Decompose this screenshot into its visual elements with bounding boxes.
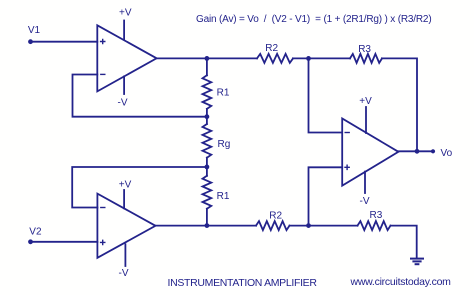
svg-text:-V: -V — [119, 268, 129, 279]
svg-text:+V: +V — [119, 7, 132, 18]
wire Rg leads — [206, 117, 208, 167]
power -V stub U2 — [124, 244, 126, 266]
resistor R1 upper — [203, 75, 212, 109]
node V1 terminal — [28, 39, 33, 44]
power +V stub U3 — [365, 107, 367, 133]
label www.circuitstoday.com — [350, 276, 452, 288]
node D junction bottom of R1 — [205, 223, 210, 228]
resistor Rg — [203, 124, 212, 158]
wire R1 upper leads — [206, 58, 208, 116]
svg-text:R3: R3 — [358, 44, 371, 55]
wire U2 output — [156, 225, 257, 227]
power -V stub U1 — [123, 76, 125, 94]
svg-text:R1: R1 — [217, 87, 230, 98]
wire R3 lower to ground — [391, 226, 417, 258]
label gain formula — [196, 14, 431, 25]
svg-text:Vo: Vo — [441, 148, 453, 159]
power -V stub U3 — [364, 172, 366, 193]
wire V1 to U1 + input — [31, 41, 98, 43]
label -V U1 — [118, 97, 128, 108]
label R1 upper — [217, 87, 230, 98]
wire R2 bottom to node G — [290, 225, 358, 227]
wire node G up to U3 non-inverting input — [309, 167, 343, 225]
ground — [411, 259, 423, 265]
svg-text:+V: +V — [119, 179, 132, 190]
svg-text:V2: V2 — [29, 226, 42, 237]
node G junction — [306, 223, 311, 228]
node V2 terminal — [28, 239, 33, 244]
label +V U2 — [119, 179, 132, 190]
label Vo — [441, 148, 453, 159]
resistor R3 lower — [358, 221, 391, 230]
svg-text:R2: R2 — [269, 211, 282, 222]
node A junction top of R1 — [205, 56, 210, 61]
label title INSTRUMENTATION AMPLIFIER — [168, 277, 318, 289]
label R1 lower — [217, 191, 230, 202]
wire R1 lower leads — [206, 167, 208, 226]
svg-text:V1: V1 — [28, 25, 41, 36]
label R2 upper — [265, 43, 278, 54]
node E junction — [306, 56, 311, 61]
label V1 — [28, 25, 41, 36]
label Rg — [218, 139, 231, 150]
label R2 lower — [269, 211, 282, 222]
svg-text:+V: +V — [359, 96, 372, 107]
label V2 — [29, 226, 42, 237]
svg-text:R3: R3 — [370, 210, 383, 221]
wire U1 feedback — [73, 75, 205, 117]
node F output junction — [415, 149, 420, 154]
svg-text:R1: R1 — [217, 191, 230, 202]
wire U1 output — [157, 57, 257, 59]
resistor R2 upper — [257, 54, 293, 63]
power +V stub U2 — [123, 190, 125, 208]
label -V U2 — [119, 268, 129, 279]
resistor R2 lower — [256, 221, 290, 230]
svg-text:www.circuitstoday.com: www.circuitstoday.com — [350, 276, 452, 288]
op-amp U2 — [97, 194, 155, 258]
wire U2 feedback — [72, 167, 204, 208]
op-amp U1 — [97, 25, 156, 91]
svg-text:R2: R2 — [265, 43, 278, 54]
wire R2 top to node E — [293, 57, 350, 59]
wire U3 output — [398, 150, 433, 152]
node C junction Rg/R1 — [205, 165, 210, 170]
label +V U3 — [359, 96, 372, 107]
svg-text:Rg: Rg — [218, 139, 231, 150]
svg-text:INSTRUMENTATION AMPLIFIER: INSTRUMENTATION AMPLIFIER — [168, 277, 318, 289]
node Vo terminal — [431, 149, 435, 153]
wire node E down to U3 inverting input — [309, 58, 343, 132]
label +V U1 — [119, 7, 132, 18]
node B junction R1/Rg — [205, 114, 210, 119]
label R3 upper — [358, 44, 371, 55]
svg-text:-V: -V — [118, 97, 128, 108]
resistor R1 lower — [203, 176, 212, 209]
wire R3 top feedback to output — [382, 58, 417, 151]
power +V stub U1 — [123, 21, 125, 40]
svg-text:-V: -V — [360, 196, 370, 207]
wire V2 to U2 + input — [31, 241, 98, 243]
label -V U3 — [360, 196, 370, 207]
resistor R3 upper — [350, 54, 382, 63]
op-amp U3 — [342, 119, 398, 186]
svg-text:Gain (Av) = Vo / (V2 - V1): Gain (Av) = Vo / (V2 - V1) = (1 + (2R1/R… — [196, 14, 431, 25]
label R3 lower — [370, 210, 383, 221]
